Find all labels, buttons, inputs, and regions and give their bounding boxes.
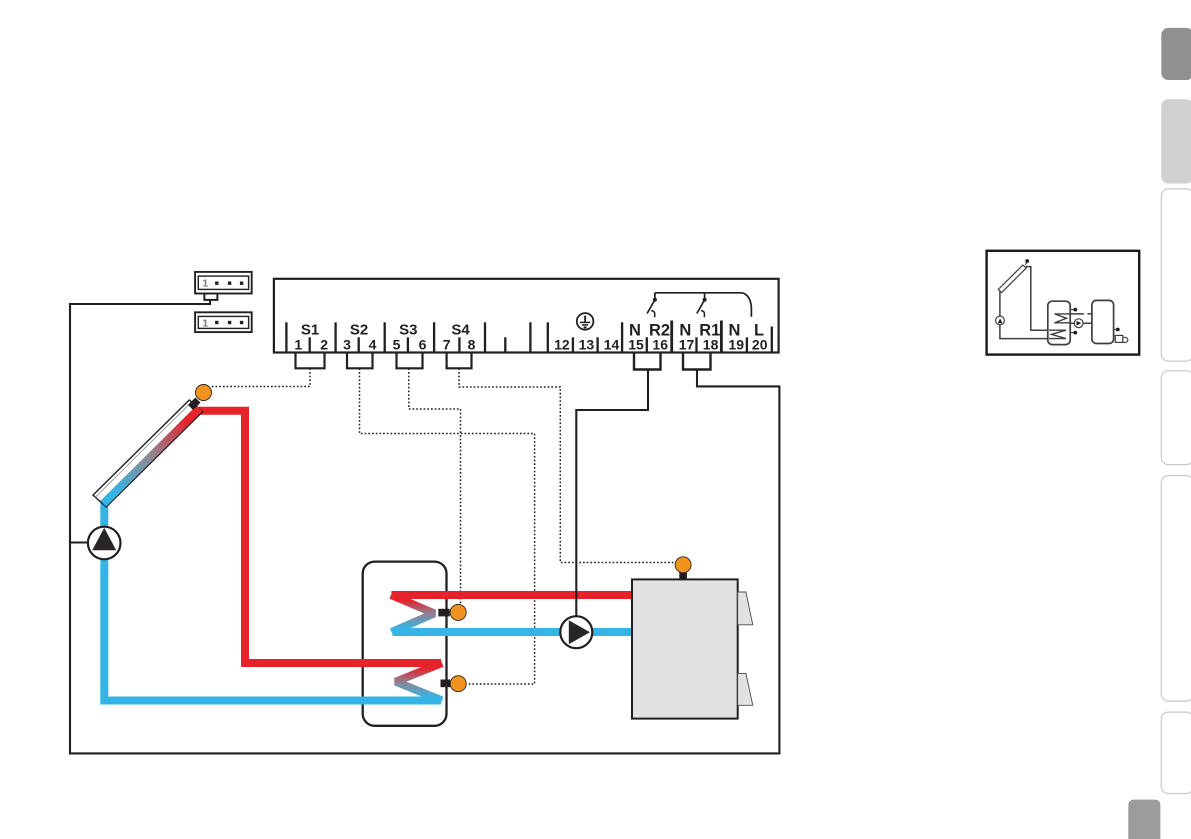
thumbnail solar pump — [996, 316, 1005, 325]
svg-text:3: 3 — [343, 337, 351, 353]
relay/mains labels N R2 N R1 N L — [629, 322, 764, 340]
connector J1 tab — [204, 294, 217, 300]
thumbnail boiler circuit pipes — [1070, 313, 1092, 315]
svg-text:2: 2 — [320, 337, 328, 353]
thumbnail tank lower coil — [1049, 330, 1066, 338]
svg-text:S3: S3 — [399, 321, 417, 338]
relay internal bus line — [655, 292, 742, 294]
ground symbol — [577, 313, 594, 330]
wire S2 sensor (dotted, terminals 3-4 to lower tank sensor) — [360, 368, 535, 684]
relay 1 contact — [701, 311, 705, 318]
svg-text:S2: S2 — [350, 321, 368, 338]
boiler pump R2 — [560, 616, 592, 648]
pipe: solar flow (red, collector to lower tank coil) — [197, 411, 442, 663]
wire S1 sensor (dotted, terminals 1-2 to collector sensor) — [211, 368, 310, 386]
svg-text:13: 13 — [579, 337, 595, 353]
scheme thumbnail box — [987, 251, 1140, 355]
nav tab outline 3 — [1161, 476, 1191, 701]
thumbnail burner — [1115, 335, 1123, 342]
storage tank — [363, 562, 447, 726]
thumbnail boiler sensor — [1114, 329, 1117, 331]
relay 1 switch arm — [697, 300, 705, 314]
solar pump R1 — [88, 527, 121, 560]
connector J1 (bus connector top) — [195, 272, 252, 294]
collector sensor stub — [188, 398, 201, 411]
wire R1 (relay 1 output, terminals 17/18 around perimeter to solar pump) — [70, 300, 779, 754]
svg-text:16: 16 — [652, 337, 668, 353]
terminal clip 1-2 — [296, 353, 325, 369]
boiler flange upper — [738, 592, 753, 625]
svg-text:15: 15 — [628, 337, 644, 353]
nav tab outline 4 — [1161, 712, 1191, 793]
thumbnail collector sensor — [1025, 259, 1029, 263]
svg-text:8: 8 — [468, 337, 476, 353]
nav tab dark (top right) — [1161, 28, 1191, 80]
upper tank sensor stub — [438, 609, 450, 617]
lower tank sensor S2 (orange) — [450, 676, 466, 692]
upper tank coil — [391, 595, 434, 632]
boiler sensor S4 (orange) — [675, 557, 691, 573]
collector sensor S1 (orange) — [196, 385, 212, 401]
lower tank coil — [396, 663, 442, 701]
thumbnail solar flow pipe — [1026, 267, 1050, 331]
relay 2 switch arm — [647, 300, 655, 314]
thumbnail boiler pump — [1074, 319, 1083, 328]
terminal clip 5-6 — [397, 353, 423, 369]
page corner tab (bottom right) — [1128, 800, 1160, 839]
thumbnail tank upper coil — [1055, 314, 1071, 323]
thumbnail solar return pipe — [1000, 292, 1049, 339]
boiler flange lower — [738, 673, 753, 705]
svg-text:20: 20 — [752, 337, 768, 353]
thumbnail tank — [1048, 301, 1070, 344]
nav tab outline 1 — [1161, 189, 1191, 361]
thumbnail tank sensors — [1070, 309, 1074, 311]
svg-text:7: 7 — [443, 337, 451, 353]
solar collector panel — [93, 400, 203, 507]
connector J2 (bus connector bottom) — [195, 312, 252, 332]
terminal clip 3-4 — [347, 353, 373, 369]
terminal clip 15-16 — [634, 353, 661, 370]
nav tab light grey — [1161, 99, 1191, 183]
pipe: boiler return (blue, boiler to upper coil) — [393, 628, 635, 636]
svg-text:5: 5 — [393, 337, 401, 353]
svg-text:1: 1 — [294, 337, 302, 353]
terminal dividers short — [310, 337, 747, 352]
nav tab outline 2 — [1161, 371, 1191, 465]
upper tank sensor S3 (orange) — [450, 604, 466, 620]
boiler sensor stub — [679, 570, 687, 581]
svg-text:12: 12 — [554, 337, 570, 353]
wire S4 sensor (dotted, terminals 7-8 to boiler sensor) — [459, 368, 674, 562]
pipe: boiler flow (red, upper coil to boiler) — [391, 591, 634, 599]
boiler — [632, 579, 738, 718]
terminal pin numbers — [294, 337, 767, 353]
svg-text:6: 6 — [419, 337, 427, 353]
relay 2 contact — [651, 311, 655, 318]
svg-text:1: 1 — [202, 317, 208, 329]
thumbnail boiler — [1092, 300, 1114, 343]
terminal dividers tall — [286, 321, 771, 353]
pipe: solar return (blue, tank to collector) — [104, 502, 441, 701]
wire R2 (relay 2 output, terminals 15/16 to boiler pump) — [576, 370, 648, 618]
svg-text:1: 1 — [202, 278, 208, 290]
svg-text:18: 18 — [703, 337, 719, 353]
lower tank sensor stub — [441, 680, 451, 688]
relay 2 pivot — [654, 293, 656, 299]
terminal clip 7-8 — [447, 353, 472, 369]
terminal block U1 (controller) — [274, 279, 779, 353]
wire S3 sensor (dotted, terminals 5-6 to upper tank sensor) — [409, 368, 461, 603]
svg-text:14: 14 — [604, 337, 620, 353]
svg-text:19: 19 — [728, 337, 744, 353]
svg-text:S1: S1 — [301, 321, 319, 338]
thumbnail collector — [998, 265, 1026, 292]
sensor input labels S1 S2 S3 S4 — [301, 321, 471, 338]
relay 1 pivot — [704, 293, 706, 299]
relay L feed curve — [742, 293, 751, 317]
wire stub to solar pump — [70, 541, 89, 543]
svg-text:17: 17 — [679, 337, 695, 353]
terminal clip 17-18 — [683, 353, 711, 370]
svg-text:4: 4 — [369, 337, 377, 353]
